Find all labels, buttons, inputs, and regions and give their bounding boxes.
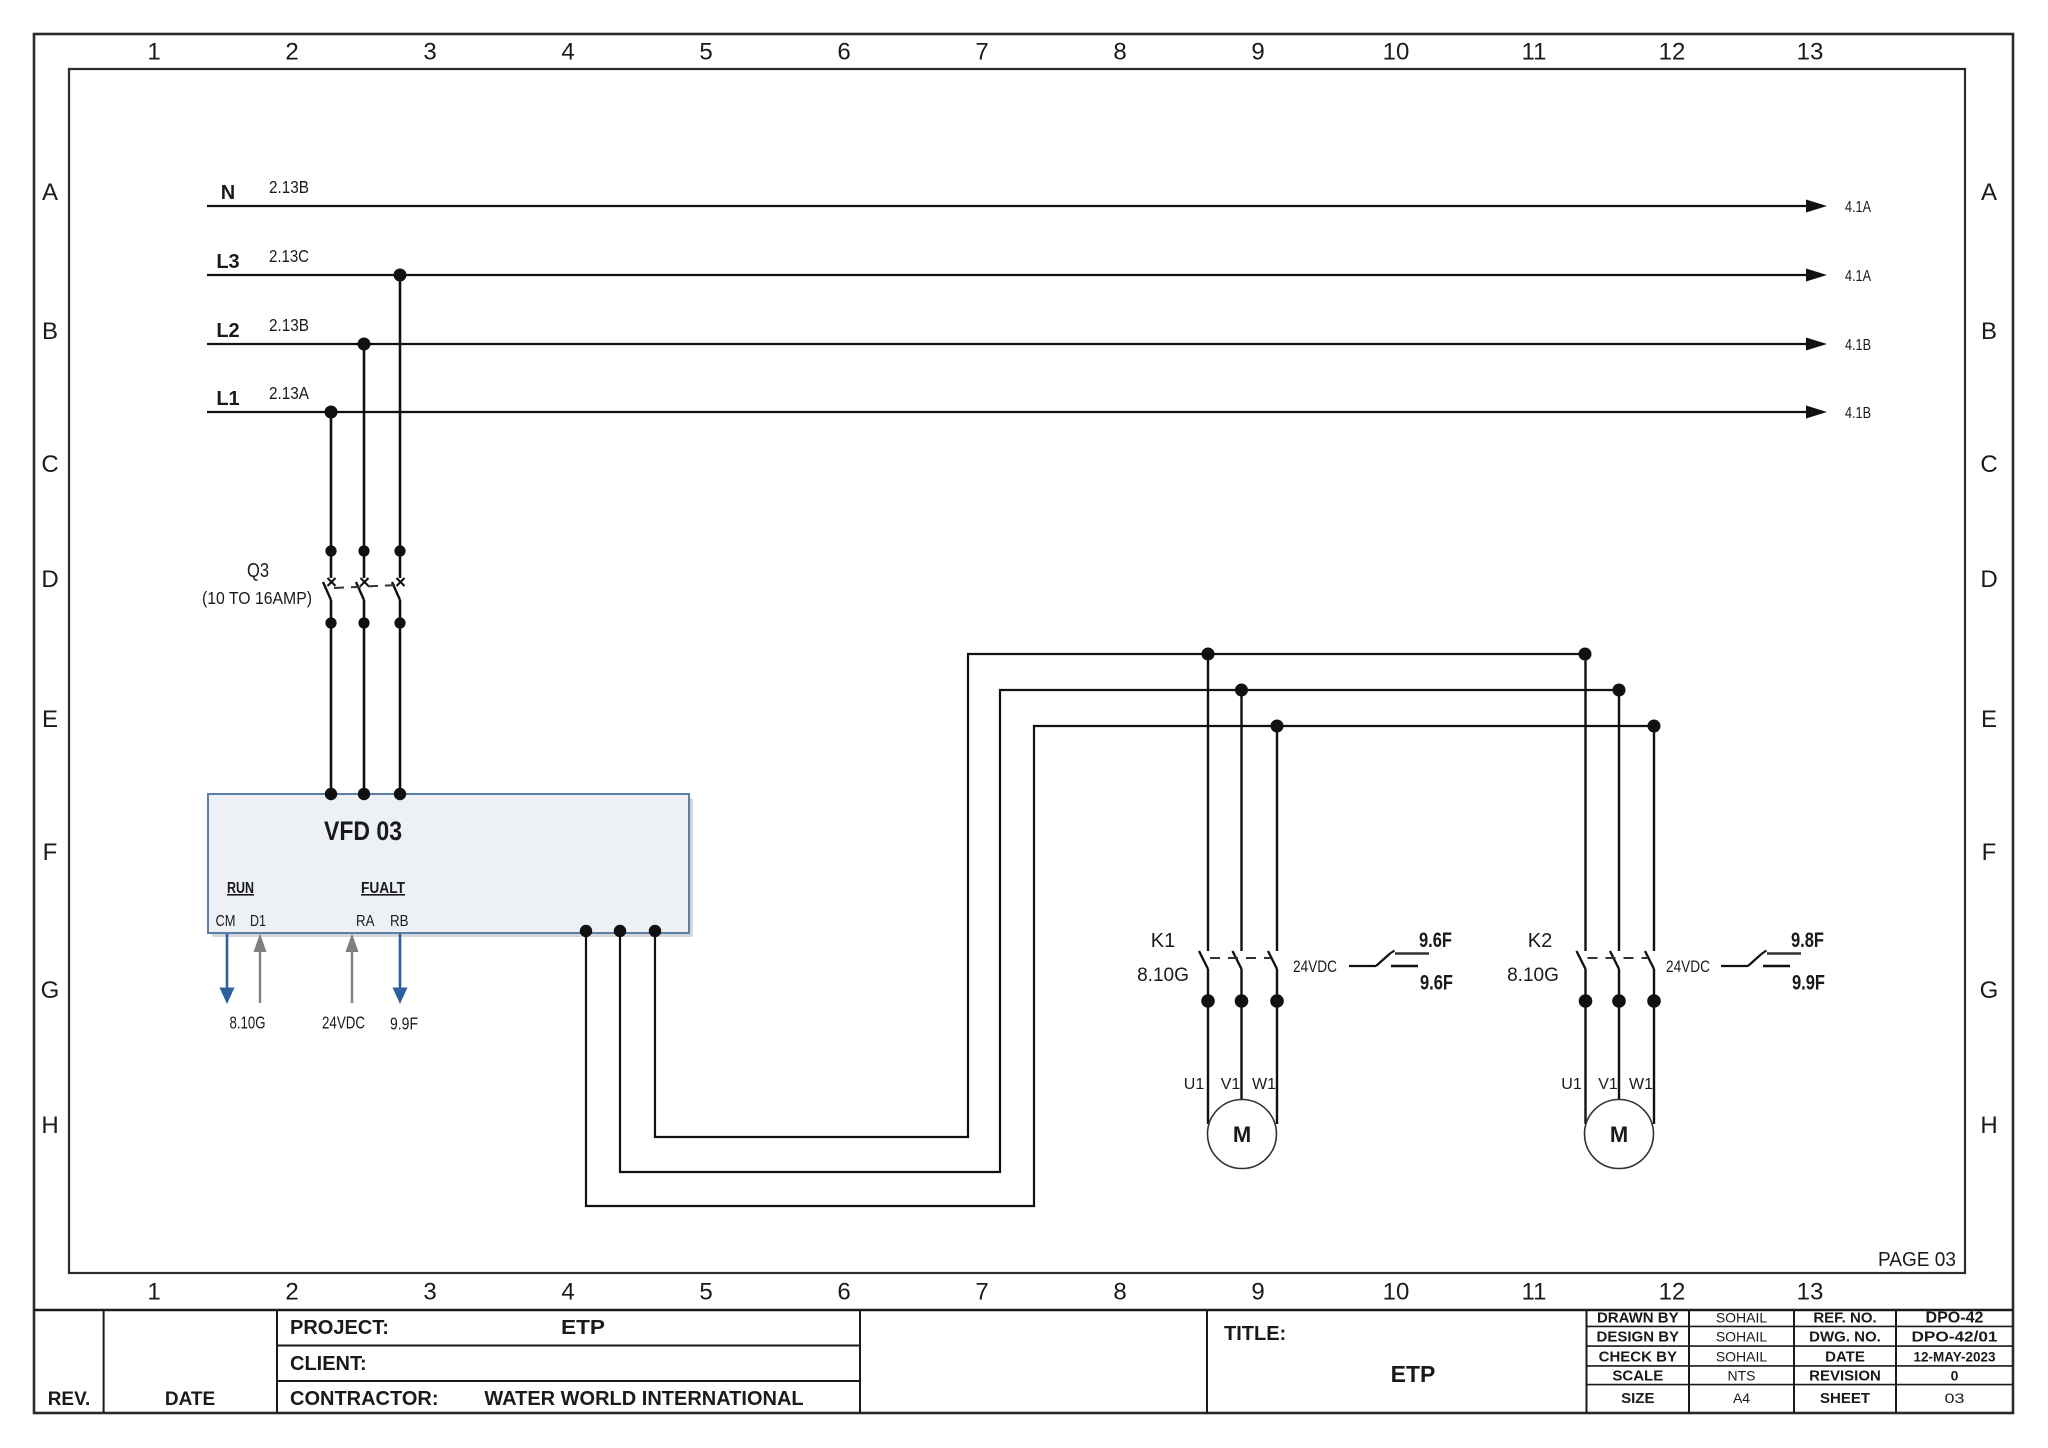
contactor K2 coil contact 24VDC [1666, 957, 1710, 976]
svg-text:D: D [41, 566, 58, 593]
svg-text:2.13A: 2.13A [269, 383, 309, 403]
bus L2 wire [207, 315, 1871, 354]
title block TITLE section [1224, 1323, 1435, 1387]
VFD FUALT terminal labels [356, 880, 409, 930]
svg-text:DPO-42/01: DPO-42/01 [1912, 1329, 1998, 1346]
svg-text:ETP: ETP [561, 1317, 605, 1339]
svg-text:DRAWN BY: DRAWN BY [1597, 1310, 1679, 1327]
svg-text:DESIGN BY: DESIGN BY [1597, 1329, 1680, 1346]
contactor K2 linkage dashed line [1588, 957, 1649, 959]
wire VFD W output to bus (outer U) [586, 726, 1654, 1206]
svg-text:8.10G: 8.10G [1137, 965, 1189, 986]
svg-text:CLIENT:: CLIENT: [290, 1353, 367, 1375]
svg-text:VFD 03: VFD 03 [324, 816, 402, 846]
svg-text:6: 6 [837, 39, 850, 66]
node W-bus junctions [1271, 720, 1661, 733]
svg-text:10: 10 [1383, 1279, 1410, 1306]
wire L3 to Q3 [399, 275, 402, 578]
svg-text:L2: L2 [216, 320, 239, 342]
svg-text:H: H [41, 1112, 58, 1139]
svg-text:9.8F: 9.8F [1791, 929, 1824, 952]
svg-text:F: F [43, 839, 58, 866]
svg-text:N: N [221, 182, 235, 204]
wire L1 to Q3 [330, 412, 333, 578]
title block info table [1597, 1310, 1998, 1407]
svg-text:2.13C: 2.13C [269, 246, 309, 266]
svg-text:10: 10 [1383, 39, 1410, 66]
svg-text:K1: K1 [1151, 930, 1175, 952]
svg-text:7: 7 [975, 39, 988, 66]
svg-text:CHECK BY: CHECK BY [1599, 1348, 1677, 1365]
svg-text:3: 3 [423, 39, 436, 66]
svg-text:13: 13 [1797, 1279, 1824, 1306]
bus L3 wire [207, 246, 1872, 285]
svg-text:SHEET: SHEET [1820, 1390, 1870, 1407]
motor M2 [1561, 1076, 1653, 1169]
contactor K1 pole at x=1241.5 [1233, 690, 1249, 1124]
motor M1 [1184, 1076, 1277, 1169]
svg-text:DATE: DATE [165, 1389, 215, 1410]
svg-text:SIZE: SIZE [1621, 1390, 1654, 1407]
svg-text:4.1A: 4.1A [1845, 268, 1872, 285]
svg-text:24VDC: 24VDC [1293, 957, 1337, 976]
svg-text:M: M [1610, 1122, 1628, 1147]
svg-text:D: D [1980, 566, 1997, 593]
svg-text:W1: W1 [1252, 1076, 1276, 1093]
svg-text:(10 TO 16AMP): (10 TO 16AMP) [202, 588, 312, 608]
svg-text:4.1B: 4.1B [1845, 337, 1871, 354]
column ruler numbers (top) [147, 39, 1823, 66]
svg-text:K2: K2 [1528, 930, 1552, 952]
svg-text:PAGE 03: PAGE 03 [1878, 1249, 1956, 1271]
contactor K1 pole at x=1277 [1268, 726, 1284, 1124]
svg-text:PROJECT:: PROJECT: [290, 1317, 389, 1339]
breaker Q3 linkage dashed line [334, 585, 397, 588]
svg-text:4: 4 [561, 39, 574, 66]
svg-text:A4: A4 [1733, 1390, 1750, 1406]
svg-text:2: 2 [285, 39, 298, 66]
contactor K2 label [1507, 930, 1559, 986]
svg-text:W1: W1 [1629, 1076, 1653, 1093]
row ruler letters (left) [41, 179, 60, 1139]
svg-text:SCALE: SCALE [1612, 1368, 1663, 1385]
svg-text:9.9F: 9.9F [390, 1014, 418, 1034]
svg-text:E: E [42, 706, 58, 733]
contactor K1 linkage dashed line [1210, 957, 1271, 959]
svg-text:24VDC: 24VDC [1666, 957, 1710, 976]
svg-text:REVISION: REVISION [1809, 1368, 1881, 1385]
svg-text:RA: RA [356, 913, 375, 930]
svg-text:RB: RB [390, 913, 409, 930]
svg-text:9.6F: 9.6F [1420, 972, 1453, 995]
svg-text:Q3: Q3 [247, 560, 269, 582]
svg-text:13: 13 [1797, 39, 1824, 66]
row ruler letters (right) [1980, 179, 1999, 1139]
node L2 junction [358, 338, 371, 351]
contactor K2 pole at x=1619 [1610, 690, 1626, 1124]
svg-text:A: A [42, 179, 58, 206]
svg-text:24VDC: 24VDC [322, 1013, 365, 1033]
title block project rows [290, 1317, 804, 1410]
svg-text:REV.: REV. [48, 1389, 91, 1410]
column ruler numbers (bottom) [147, 1279, 1823, 1306]
svg-text:L1: L1 [216, 388, 239, 410]
svg-text:8: 8 [1113, 39, 1126, 66]
svg-text:U1: U1 [1184, 1076, 1205, 1093]
signal arrow RA up (24VDC) [322, 934, 365, 1033]
svg-text:H: H [1980, 1112, 1997, 1139]
circuit breaker Q3 label [202, 560, 312, 608]
svg-text:5: 5 [699, 1279, 712, 1306]
svg-text:WATER WORLD INTERNATIONAL: WATER WORLD INTERNATIONAL [484, 1388, 803, 1410]
svg-text:12-MAY-2023: 12-MAY-2023 [1914, 1348, 1996, 1364]
signal arrow RB down (9.9F) [390, 934, 418, 1034]
svg-text:CONTRACTOR:: CONTRACTOR: [290, 1388, 439, 1410]
svg-text:B: B [1981, 318, 1997, 345]
svg-text:SOHAIL: SOHAIL [1716, 1329, 1768, 1345]
svg-text:4: 4 [561, 1279, 574, 1306]
svg-text:C: C [41, 451, 58, 478]
svg-text:G: G [41, 977, 60, 1004]
svg-text:E: E [1981, 706, 1997, 733]
contactor K1 label [1137, 930, 1189, 986]
svg-text:SOHAIL: SOHAIL [1716, 1348, 1768, 1364]
svg-text:03: 03 [1945, 1390, 1965, 1406]
svg-text:9: 9 [1251, 1279, 1264, 1306]
svg-text:M: M [1233, 1122, 1251, 1147]
svg-text:FUALT: FUALT [361, 880, 405, 897]
contactor K1 coil contact 24VDC [1293, 957, 1337, 976]
svg-text:7: 7 [975, 1279, 988, 1306]
bus L1 wire [207, 383, 1871, 422]
svg-text:ETP: ETP [1391, 1361, 1436, 1387]
svg-text:1: 1 [147, 1279, 160, 1306]
node L1 junction [325, 406, 338, 419]
svg-text:SOHAIL: SOHAIL [1716, 1310, 1768, 1326]
svg-text:8.10G: 8.10G [1507, 965, 1559, 986]
svg-text:0: 0 [1951, 1368, 1959, 1384]
svg-text:DPO-42: DPO-42 [1926, 1310, 1984, 1327]
VFD RUN terminal labels [216, 880, 267, 930]
svg-text:9: 9 [1251, 39, 1264, 66]
node VFD input terminals [325, 788, 406, 800]
svg-text:8: 8 [1113, 1279, 1126, 1306]
svg-text:RUN: RUN [227, 880, 254, 897]
svg-text:11: 11 [1522, 1279, 1547, 1306]
svg-text:2.13B: 2.13B [269, 315, 309, 335]
svg-text:D1: D1 [250, 913, 266, 930]
svg-text:12: 12 [1659, 1279, 1686, 1306]
svg-text:5: 5 [699, 39, 712, 66]
svg-text:DATE: DATE [1825, 1348, 1865, 1365]
node VFD output terminals [580, 925, 661, 937]
wire L2 to Q3 [363, 344, 366, 578]
svg-text:4.1A: 4.1A [1845, 199, 1872, 216]
svg-text:F: F [1982, 839, 1997, 866]
bus N wire [207, 177, 1872, 216]
svg-text:6: 6 [837, 1279, 850, 1306]
svg-text:1: 1 [147, 39, 160, 66]
svg-text:L3: L3 [216, 251, 239, 273]
svg-text:2: 2 [285, 1279, 298, 1306]
wire VFD V output to bus (middle U) [620, 690, 1619, 1172]
signal arrow CM down (8.10G) [220, 934, 266, 1033]
signal arrow D1 up [254, 934, 267, 1004]
svg-text:3: 3 [423, 1279, 436, 1306]
svg-text:G: G [1980, 977, 1999, 1004]
inner border frame [69, 69, 1965, 1273]
title block grid [34, 1310, 2013, 1413]
svg-text:CM: CM [216, 913, 236, 930]
contactor K1 pole at x=1208 [1199, 654, 1215, 1124]
contactor K2 pole at x=1585.5 [1577, 654, 1593, 1124]
breaker Q3 pole at x=331 [323, 545, 337, 794]
svg-text:4.1B: 4.1B [1845, 405, 1871, 422]
node V-bus junctions [1235, 684, 1626, 697]
node L3 junction [394, 269, 407, 282]
svg-text:NTS: NTS [1728, 1368, 1756, 1384]
svg-text:DWG. NO.: DWG. NO. [1809, 1329, 1881, 1346]
svg-text:V1: V1 [1598, 1076, 1618, 1093]
svg-text:REF. NO.: REF. NO. [1813, 1310, 1876, 1327]
svg-text:C: C [1980, 451, 1997, 478]
svg-text:A: A [1981, 179, 1997, 206]
contactor K2 pole at x=1654 [1645, 726, 1661, 1124]
node U-bus junctions [1202, 648, 1592, 661]
VFD U1 drive box VFD 03 [208, 794, 693, 937]
svg-text:8.10G: 8.10G [230, 1013, 266, 1033]
breaker Q3 pole at x=364 [356, 545, 370, 794]
svg-text:2.13B: 2.13B [269, 177, 309, 197]
svg-text:9.9F: 9.9F [1792, 972, 1825, 995]
svg-text:B: B [42, 318, 58, 345]
wire VFD U output to bus (inner U) [655, 654, 1585, 1137]
breaker Q3 pole at x=400 [392, 545, 406, 794]
svg-text:TITLE:: TITLE: [1224, 1323, 1286, 1345]
svg-text:12: 12 [1659, 39, 1686, 66]
title block REV/DATE labels [48, 1389, 215, 1410]
svg-text:9.6F: 9.6F [1419, 929, 1452, 952]
svg-text:11: 11 [1522, 39, 1547, 66]
svg-text:U1: U1 [1561, 1076, 1582, 1093]
svg-text:V1: V1 [1221, 1076, 1241, 1093]
